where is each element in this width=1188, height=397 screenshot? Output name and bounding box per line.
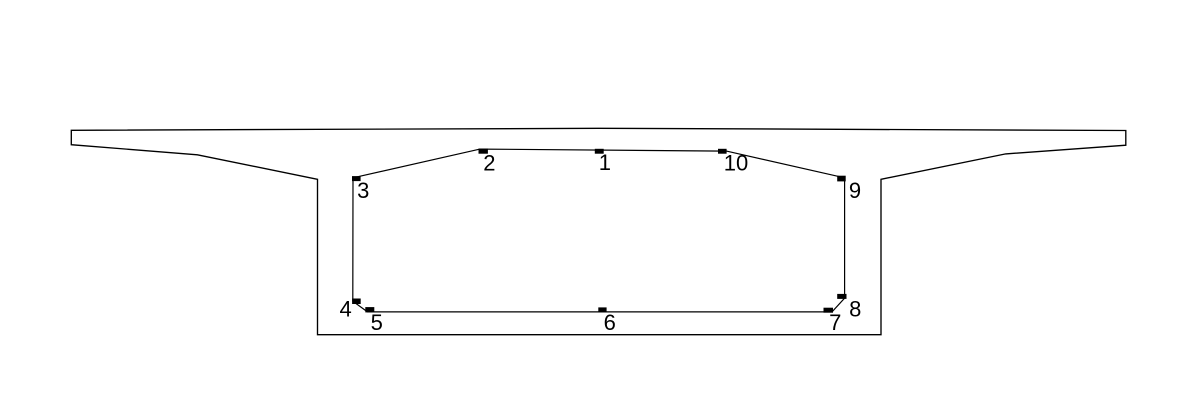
outer deck / box girder outline <box>71 128 1126 334</box>
svg-text:6: 6 <box>604 310 616 335</box>
marker point 4 <box>352 299 361 305</box>
svg-text:2: 2 <box>483 151 495 176</box>
svg-text:8: 8 <box>849 297 861 322</box>
marker point 3 <box>352 176 361 181</box>
marker point 8 <box>837 294 846 299</box>
svg-text:9: 9 <box>849 178 861 203</box>
svg-text:10: 10 <box>724 151 748 176</box>
marker point 1 <box>595 149 604 154</box>
marker point 2 <box>479 149 488 154</box>
marker point 5 <box>365 307 374 312</box>
svg-text:5: 5 <box>371 310 383 335</box>
svg-text:7: 7 <box>829 310 841 335</box>
svg-text:3: 3 <box>357 178 369 203</box>
svg-text:1: 1 <box>599 150 611 175</box>
marker point 10 <box>718 149 727 154</box>
svg-text:4: 4 <box>339 296 351 321</box>
marker point 7 <box>824 308 834 313</box>
inner box cell outline <box>353 149 845 312</box>
marker point 9 <box>837 176 846 182</box>
marker point 6 <box>598 307 606 312</box>
